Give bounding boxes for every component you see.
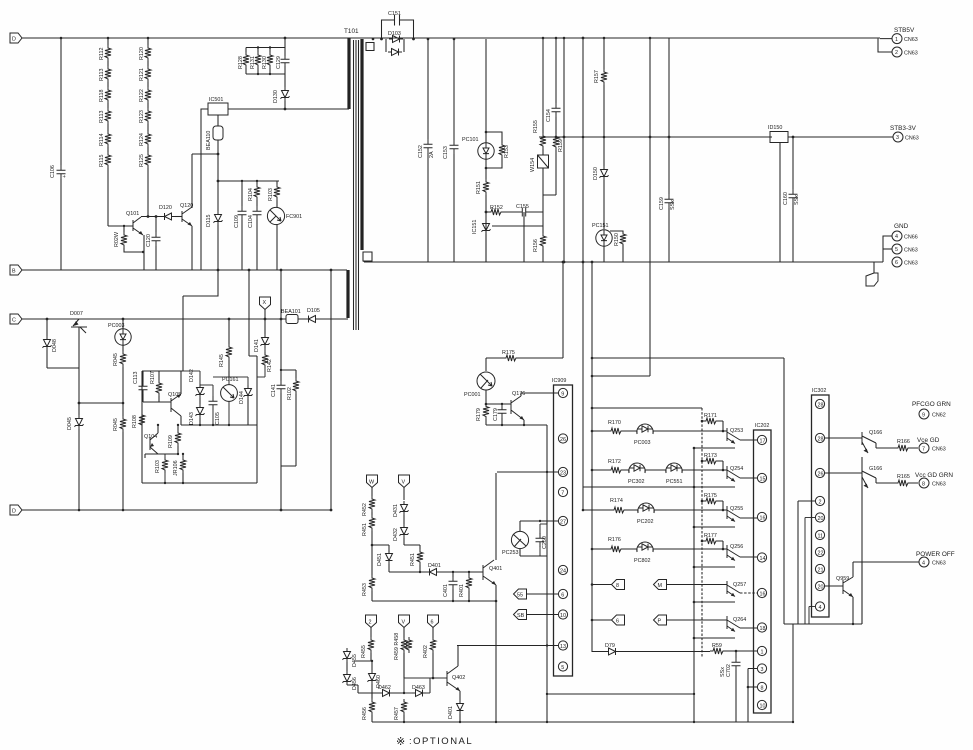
svg-text:SSx: SSx xyxy=(670,200,676,210)
transistor Q101 xyxy=(108,211,164,270)
svg-text:D455: D455 xyxy=(352,654,358,667)
zener D150 xyxy=(593,136,609,229)
svg-text:15: 15 xyxy=(760,476,766,482)
svg-text:W: W xyxy=(369,480,375,486)
IC909 connector xyxy=(552,378,573,676)
pin IC202-18 xyxy=(757,623,766,632)
wire rail B y=270 xyxy=(22,269,347,271)
chassis ground xyxy=(866,262,878,286)
svg-text:※: ※ xyxy=(396,736,405,748)
pentagon marker X xyxy=(260,297,271,320)
pentagon Z xyxy=(366,615,377,637)
svg-text:R174: R174 xyxy=(610,498,623,504)
wire STB3.3V rail y=137 xyxy=(539,136,893,138)
svg-text:23: 23 xyxy=(560,470,566,476)
svg-text:R115: R115 xyxy=(99,155,105,168)
wire node y181 xyxy=(201,154,279,270)
svg-text:R113: R113 xyxy=(99,69,105,82)
svg-text:7: 7 xyxy=(922,446,925,452)
svg-text:R123: R123 xyxy=(139,110,145,123)
svg-text:IC909: IC909 xyxy=(552,378,566,384)
capacitor C160 xyxy=(783,136,800,262)
transformer secondary winding bar xyxy=(360,39,363,250)
svg-text:C105: C105 xyxy=(215,412,221,425)
svg-text:5: 5 xyxy=(561,665,564,671)
svg-text:IC501: IC501 xyxy=(209,97,223,103)
svg-text:Q255: Q255 xyxy=(730,506,743,512)
transistor Q255 xyxy=(723,506,757,522)
wire block mid y425 xyxy=(181,424,257,426)
svg-text:4: 4 xyxy=(895,234,898,240)
svg-text:2A: 2A xyxy=(429,151,435,158)
diode D463 xyxy=(403,653,447,697)
svg-text:FC901: FC901 xyxy=(286,214,302,220)
svg-text:R108: R108 xyxy=(132,415,138,428)
resistor R152 capacitor C155 xyxy=(485,204,543,262)
resistor R045b xyxy=(113,403,126,510)
resistor R175 xyxy=(486,350,563,371)
resistor R453 xyxy=(362,545,375,601)
pin 6 CN63 xyxy=(892,257,918,267)
resistor R402 xyxy=(423,637,436,679)
svg-text:7: 7 xyxy=(561,490,564,496)
svg-text:2: 2 xyxy=(819,499,822,505)
zener D143 xyxy=(189,398,205,425)
svg-text:R130: R130 xyxy=(262,56,268,69)
pin 2 CN63 xyxy=(892,47,918,57)
svg-text:POWER OFF: POWER OFF xyxy=(916,551,955,558)
pentagon W xyxy=(367,475,378,496)
svg-text:X: X xyxy=(263,300,267,306)
row3: resistor R174 opto PC202 xyxy=(583,498,723,525)
svg-text:27: 27 xyxy=(560,519,566,525)
pin IC302-21 xyxy=(815,564,824,573)
shunt reg IC151 xyxy=(472,220,543,262)
pin IC302-22 xyxy=(815,547,824,556)
capacitor C159 xyxy=(659,38,676,262)
svg-text:Q256: Q256 xyxy=(730,544,743,550)
pin IC909-27 xyxy=(558,516,567,525)
svg-text:PFCGO GRN: PFCGO GRN xyxy=(912,401,951,408)
svg-text:PC302: PC302 xyxy=(628,479,644,485)
wire junction dots rail A/D xyxy=(60,37,150,512)
resistor column R120-R125 xyxy=(139,38,151,216)
svg-text:D115: D115 xyxy=(206,215,212,228)
zener D115 xyxy=(206,181,223,270)
transistor Q104 xyxy=(144,424,159,458)
diode D103b lower xyxy=(372,38,404,56)
svg-text:CN63: CN63 xyxy=(932,561,946,567)
wire Q253 emitter row xyxy=(693,447,735,450)
diode BEA101 xyxy=(281,309,301,324)
diode D79 row xyxy=(592,643,710,655)
row5: pentagon 8 pentagon M transistor Q257 xyxy=(592,580,625,590)
svg-text:R153: R153 xyxy=(504,145,510,158)
svg-text:D105: D105 xyxy=(307,308,320,314)
svg-text:R109: R109 xyxy=(168,435,174,448)
svg-text:21: 21 xyxy=(818,567,824,573)
resistor R451b xyxy=(410,549,423,572)
svg-text:JR106: JR106 xyxy=(173,460,179,476)
svg-text:CN63: CN63 xyxy=(904,248,918,254)
resistor R109 xyxy=(158,424,181,455)
svg-text:PC003: PC003 xyxy=(108,323,124,329)
svg-text:PC161: PC161 xyxy=(222,377,238,383)
svg-text:R402: R402 xyxy=(423,645,429,658)
diode D462 xyxy=(372,685,404,698)
svg-text:3: 3 xyxy=(761,667,764,673)
svg-text:18: 18 xyxy=(760,626,766,632)
R155 W154 R156 chain x543 xyxy=(530,37,549,262)
wire enclosure top y358 xyxy=(592,358,862,624)
pin 3 CN63 xyxy=(893,132,919,142)
capacitor C109 xyxy=(234,180,247,270)
svg-text:2: 2 xyxy=(895,50,898,56)
resistor R401 xyxy=(459,572,472,601)
svg-text:R02W: R02W xyxy=(114,231,120,247)
wire Q256 emitter row xyxy=(693,566,735,569)
transistor Q253 xyxy=(723,428,757,444)
svg-text:D130: D130 xyxy=(273,90,279,103)
resistor R171 xyxy=(701,413,725,432)
svg-text:17: 17 xyxy=(760,438,766,444)
svg-text:6: 6 xyxy=(895,260,898,266)
svg-text:R456: R456 xyxy=(362,707,368,720)
svg-text:C160: C160 xyxy=(783,192,789,205)
svg-text:D144: D144 xyxy=(239,391,245,404)
svg-text:C154: C154 xyxy=(546,109,552,122)
svg-text:ID150: ID150 xyxy=(768,125,782,131)
svg-text:IC202: IC202 xyxy=(755,423,769,429)
wire rail C y=319 xyxy=(22,318,348,320)
wire GND rail y=262 xyxy=(364,261,883,263)
svg-text:C109: C109 xyxy=(234,215,240,228)
svg-text:BEA110: BEA110 xyxy=(206,131,212,150)
transistor Q105 xyxy=(168,371,181,425)
transformer secondary tap box xyxy=(363,43,374,263)
opto PC253 xyxy=(502,520,558,556)
resistor JR106 xyxy=(164,453,186,484)
resistor R166 xyxy=(895,439,911,451)
zener D144 xyxy=(229,377,253,425)
svg-text:C120: C120 xyxy=(146,234,152,247)
pin 4 CN66 xyxy=(883,231,918,262)
wire rail A to pin1 xyxy=(878,39,892,52)
svg-text:26: 26 xyxy=(818,471,824,477)
svg-text:C106: C106 xyxy=(50,165,56,178)
terminal A (top left, letter D) xyxy=(10,33,22,43)
wire Q255 emitter row xyxy=(693,526,735,529)
transistor Q402 xyxy=(447,646,465,701)
transistor Q254 xyxy=(723,466,757,482)
svg-text:R103: R103 xyxy=(155,460,161,473)
pin IC202-8 xyxy=(747,682,767,691)
resistor R145 xyxy=(219,318,232,377)
svg-text:V: V xyxy=(402,620,406,626)
zener D456 xyxy=(343,671,373,693)
transistor Q176 xyxy=(502,391,558,425)
wire pin13 left xyxy=(457,644,558,646)
svg-text:D79: D79 xyxy=(605,643,615,649)
svg-text:R156: R156 xyxy=(533,239,539,252)
capacitor C153 xyxy=(443,38,459,262)
svg-text:CN66: CN66 xyxy=(904,235,918,241)
wire bus x592 xyxy=(591,261,594,652)
svg-text:D142: D142 xyxy=(189,369,195,382)
pin IC302-28b xyxy=(815,433,862,442)
transformer primary winding bar top xyxy=(347,38,350,109)
svg-text:R131: R131 xyxy=(250,56,256,69)
resistor R045 xyxy=(79,349,126,404)
pentagon 55 xyxy=(514,589,559,599)
svg-text:16: 16 xyxy=(760,515,766,521)
opto PC001 xyxy=(464,372,495,405)
row1: resistor R170 opto PC003b xyxy=(592,420,723,446)
svg-text:Vcc GD GRN: Vcc GD GRN xyxy=(915,472,953,479)
svg-text:CN63: CN63 xyxy=(904,261,918,267)
wire x650 lower xyxy=(592,262,650,376)
pin CN63-8 xyxy=(915,472,953,488)
svg-text:D150: D150 xyxy=(593,167,599,180)
IC202 connector box xyxy=(754,423,772,713)
capacitor C141 R102 xyxy=(271,269,299,512)
resistor R457 xyxy=(394,699,407,722)
transistor Q166 xyxy=(862,430,918,453)
zener D045 xyxy=(67,402,84,510)
wire y601 xyxy=(372,600,497,603)
svg-text:R124: R124 xyxy=(139,133,145,146)
svg-text:STB5V: STB5V xyxy=(894,27,915,34)
terminal C xyxy=(10,314,22,324)
wire rail D y=510 xyxy=(22,509,331,511)
pin IC202-15 xyxy=(757,473,766,482)
svg-text:C702: C702 xyxy=(726,664,732,677)
resistor R173 xyxy=(701,453,725,471)
svg-text:4: 4 xyxy=(922,560,925,566)
svg-text:2: 2 xyxy=(369,620,372,626)
resistor R103b xyxy=(155,454,168,483)
pin IC202-17 xyxy=(757,435,766,444)
capacitor C113 xyxy=(133,371,148,402)
wire Q257 emitter row xyxy=(693,601,735,604)
pin IC302-20 xyxy=(805,513,825,624)
pin CN63-4 xyxy=(919,557,946,567)
svg-text:8: 8 xyxy=(616,583,619,589)
resistor R177 xyxy=(701,533,725,550)
svg-text:6: 6 xyxy=(561,592,564,598)
svg-text:D007: D007 xyxy=(70,311,83,317)
svg-text:IC302: IC302 xyxy=(812,388,826,394)
svg-text:P: P xyxy=(658,619,662,625)
svg-text:4: 4 xyxy=(819,605,822,611)
svg-text:24: 24 xyxy=(560,568,566,574)
capacitor C401 xyxy=(443,572,458,601)
svg-text:13: 13 xyxy=(560,644,566,650)
wire pin23 left xyxy=(497,471,558,473)
svg-text:14: 14 xyxy=(760,556,766,562)
svg-text:9: 9 xyxy=(561,391,564,397)
zener D431 xyxy=(393,501,409,524)
svg-text:CN63: CN63 xyxy=(904,51,918,57)
IC501 xyxy=(192,97,349,208)
wire bottom rail y722 xyxy=(372,721,793,723)
pin IC909-9 xyxy=(558,388,567,397)
svg-text:R045: R045 xyxy=(113,418,119,431)
capacitor C250 xyxy=(536,521,549,556)
pin CN63-7 xyxy=(917,437,946,453)
svg-text:M: M xyxy=(658,583,663,589)
svg-text:R172: R172 xyxy=(608,459,621,465)
svg-text:B: B xyxy=(12,269,16,275)
svg-text:CN62: CN62 xyxy=(932,413,946,419)
svg-text:CN63: CN63 xyxy=(932,482,946,488)
transistor Q256 xyxy=(723,544,757,561)
zener D460 xyxy=(368,660,383,698)
svg-text:IC151: IC151 xyxy=(472,220,478,234)
svg-text:R152: R152 xyxy=(490,205,503,211)
svg-text:8: 8 xyxy=(761,685,764,691)
svg-text:R103: R103 xyxy=(268,188,274,201)
svg-text:C153: C153 xyxy=(443,146,449,159)
svg-text:D143: D143 xyxy=(189,412,195,425)
wire Q166 emitter chain xyxy=(861,457,863,624)
svg-text:8: 8 xyxy=(922,481,925,487)
transistor Q959 xyxy=(836,562,919,625)
svg-text:C113: C113 xyxy=(133,372,139,385)
resistors R452 R451 xyxy=(362,496,375,546)
pin IC909-6 xyxy=(558,589,567,598)
zener D432 xyxy=(393,524,420,549)
diode D103 xyxy=(380,31,415,43)
row2: resistor R172 opto PC302 PC551 xyxy=(592,459,723,485)
svg-text:R107: R107 xyxy=(150,371,156,384)
wire dashed x702 xyxy=(701,408,703,658)
svg-text:R151: R151 xyxy=(476,181,482,194)
svg-text:R121: R121 xyxy=(139,68,145,81)
svg-text:6: 6 xyxy=(431,620,434,626)
transistor Q120 xyxy=(180,203,193,270)
opto PC003 xyxy=(108,318,131,349)
svg-text:Vce GD: Vce GD xyxy=(917,437,940,444)
transformer core xyxy=(354,40,359,330)
pin IC302-2 xyxy=(798,496,825,624)
diode D401 xyxy=(426,563,483,576)
pin IC302-28 xyxy=(815,399,824,408)
svg-text:R452: R452 xyxy=(362,503,368,516)
resistor R107 xyxy=(143,371,171,402)
wire bus x563 gnd to R175 row xyxy=(562,261,565,358)
svg-text:D120: D120 xyxy=(159,205,172,211)
capacitor C702 xyxy=(720,651,741,722)
wire Q264 emitter row xyxy=(693,637,735,640)
svg-text:20: 20 xyxy=(818,516,824,522)
svg-text:R451: R451 xyxy=(410,553,416,566)
BEA110 xyxy=(206,115,223,182)
svg-text:11: 11 xyxy=(818,533,824,539)
svg-text:R176: R176 xyxy=(608,537,621,543)
pin 5 CN63 xyxy=(883,244,918,254)
terminal B xyxy=(10,265,22,275)
pin CN62-9 xyxy=(919,409,946,419)
svg-text:22: 22 xyxy=(818,550,824,556)
pin IC909-10 xyxy=(558,610,567,619)
svg-text:D: D xyxy=(12,37,16,43)
svg-text:28: 28 xyxy=(818,402,824,408)
svg-text:26: 26 xyxy=(560,437,566,443)
resistor R108 xyxy=(132,412,145,428)
zener D142 xyxy=(181,369,205,398)
wire y408 xyxy=(592,407,702,409)
svg-text:5: 5 xyxy=(895,247,898,253)
feedback block frame xyxy=(142,269,257,483)
resistor R103 opto FC901 xyxy=(267,181,302,270)
svg-text:D048: D048 xyxy=(52,339,58,352)
svg-text:3: 3 xyxy=(896,135,899,141)
svg-text:20: 20 xyxy=(818,584,824,590)
svg-text:CN63: CN63 xyxy=(905,136,919,142)
svg-text:R459 R458: R459 R458 xyxy=(394,633,400,660)
svg-text:STB3-3V: STB3-3V xyxy=(890,125,917,132)
pin IC909-23 xyxy=(558,467,567,476)
zener D455 xyxy=(343,648,359,671)
svg-text:D045: D045 xyxy=(67,417,73,430)
svg-text:R453: R453 xyxy=(362,583,368,596)
pin IC302-20b xyxy=(815,581,843,590)
svg-text:D431: D431 xyxy=(393,504,399,517)
diode D101 xyxy=(305,308,320,323)
resistors R459 R458 xyxy=(394,633,412,678)
svg-text:PC101: PC101 xyxy=(462,137,478,143)
resistor R151 xyxy=(476,179,489,262)
svg-text:R157: R157 xyxy=(594,70,600,83)
wire Q254 emitter row xyxy=(583,486,735,489)
svg-text:1: 1 xyxy=(761,649,764,655)
svg-text:10: 10 xyxy=(760,703,766,709)
opto PC161 xyxy=(213,371,238,425)
capacitor C120 xyxy=(146,217,161,271)
svg-text:R142: R142 xyxy=(267,359,273,372)
pin IC202-3 xyxy=(748,664,767,722)
transistor Q401 xyxy=(483,473,502,722)
svg-text:R113: R113 xyxy=(99,111,105,124)
svg-text:C159: C159 xyxy=(659,197,665,210)
svg-text:R045: R045 xyxy=(113,353,119,366)
wire y572 xyxy=(389,571,427,573)
pin IC202-16 xyxy=(757,512,766,521)
svg-text:16: 16 xyxy=(760,591,766,597)
bus x650 xyxy=(649,37,652,262)
wire x249 railB to block xyxy=(248,269,251,356)
svg-text:10: 10 xyxy=(560,613,566,619)
diode D451 xyxy=(372,545,393,572)
svg-text:G166: G166 xyxy=(869,466,882,472)
capacitor C151 xyxy=(382,11,414,39)
pin IC909-24 xyxy=(558,565,567,574)
wire IC302 bottom y688 xyxy=(792,624,794,723)
svg-text:R128: R128 xyxy=(238,56,244,69)
svg-text:R401: R401 xyxy=(459,584,465,597)
wire bus x583 xyxy=(582,37,585,512)
resistor R142 xyxy=(257,348,273,377)
svg-text:Q257: Q257 xyxy=(733,582,746,588)
svg-text:CN63: CN63 xyxy=(932,447,946,453)
terminal D xyxy=(10,505,22,515)
svg-text:D432: D432 xyxy=(393,528,399,541)
svg-text:Q253: Q253 xyxy=(730,428,743,434)
transistor Q165 xyxy=(862,466,918,488)
svg-text:PC551: PC551 xyxy=(666,479,682,485)
svg-text:R155: R155 xyxy=(533,120,539,133)
